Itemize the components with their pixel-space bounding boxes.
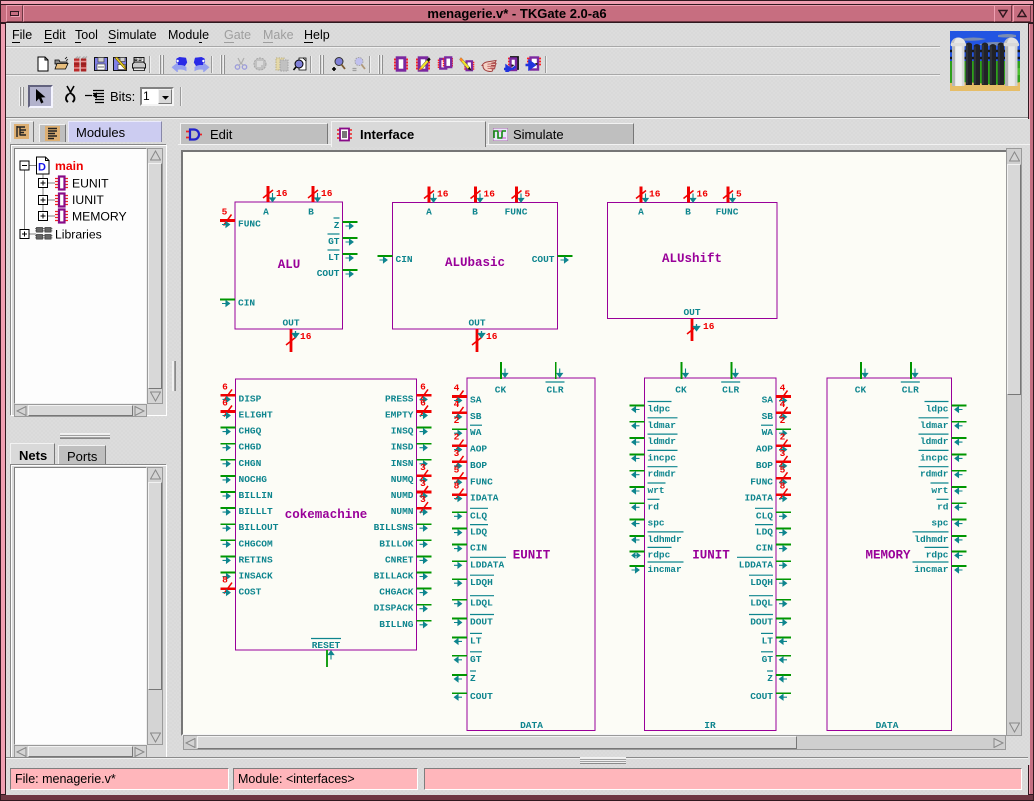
svg-text:3: 3 [454, 448, 460, 459]
svg-text:LDQH: LDQH [470, 577, 493, 588]
svg-text:DISP: DISP [239, 393, 262, 404]
svg-text:DOUT: DOUT [750, 617, 773, 628]
port EMPTY wire [417, 410, 432, 413]
svg-text:ldpc: ldpc [926, 404, 949, 415]
port BILLOUT wire [221, 523, 236, 525]
svg-text:16: 16 [484, 189, 496, 200]
svg-text:LDQH: LDQH [750, 577, 773, 588]
port BILLIN wire [221, 491, 236, 493]
svg-text:LDQ: LDQ [756, 527, 773, 538]
svg-text:rd: rd [648, 501, 660, 512]
svg-text:IUNIT: IUNIT [72, 193, 104, 207]
svg-text:DOUT: DOUT [470, 617, 493, 628]
svg-text:16: 16 [321, 188, 333, 199]
svg-text:FUNC: FUNC [750, 476, 773, 487]
port B16 wire [687, 187, 690, 203]
port GT wire [452, 655, 467, 657]
module EUNIT box [467, 378, 595, 731]
port SB wire [776, 412, 791, 415]
svg-text:Z: Z [334, 220, 340, 231]
svg-text:NOCHG: NOCHG [239, 474, 268, 485]
svg-text:BOP: BOP [470, 460, 487, 471]
svg-text:FUNC: FUNC [238, 219, 261, 230]
port CLR wire [910, 362, 912, 379]
svg-text:5: 5 [454, 464, 460, 475]
port INSD wire [417, 443, 432, 445]
svg-text:WA: WA [762, 427, 774, 438]
port CHGQ wire [221, 427, 236, 429]
svg-text:CNRET: CNRET [385, 554, 414, 565]
port incmar wire [630, 565, 645, 567]
svg-text:BILLNG: BILLNG [379, 619, 414, 630]
port incmar wire [952, 565, 967, 567]
svg-text:DATA: DATA [520, 720, 543, 731]
svg-text:LT: LT [328, 252, 340, 263]
module IUNIT box [645, 378, 777, 731]
port CNRET wire [417, 555, 432, 557]
port CLQ wire [776, 511, 791, 513]
svg-text:LDQL: LDQL [470, 598, 493, 609]
port B16 wire [312, 186, 315, 202]
svg-text:NUMQ: NUMQ [391, 474, 414, 485]
port FUNC5 wire [727, 187, 730, 203]
svg-text:RETINS: RETINS [239, 554, 274, 565]
port A16 wire [640, 187, 643, 203]
port B16 wire [474, 187, 477, 203]
svg-text:COUT: COUT [532, 254, 555, 265]
port LT wire [776, 636, 791, 638]
svg-text:6: 6 [222, 381, 228, 392]
port NUMN wire [417, 507, 432, 510]
svg-text:incmar: incmar [648, 564, 683, 575]
port LT wire [343, 253, 358, 255]
port CHGACK wire [417, 588, 432, 590]
svg-text:incpc: incpc [648, 452, 677, 463]
svg-text:CK: CK [495, 385, 507, 396]
port COUT wire [558, 255, 573, 257]
svg-text:A: A [638, 207, 644, 218]
port COUT wire [452, 692, 467, 694]
port LDQL wire [452, 599, 467, 601]
svg-text:BILLOUT: BILLOUT [239, 522, 279, 533]
port rdmdr wire [630, 470, 645, 472]
port BILLACK wire [417, 572, 432, 574]
svg-text:CIN: CIN [470, 543, 487, 554]
port CK wire [500, 362, 502, 379]
module MEMORY box [827, 378, 952, 731]
port CIN wire [452, 544, 467, 546]
port COUT wire [343, 269, 358, 271]
svg-text:spc: spc [648, 518, 665, 529]
port LDQ wire [452, 528, 467, 530]
svg-text:Z: Z [470, 673, 476, 684]
svg-text:EUNIT: EUNIT [513, 549, 551, 563]
svg-text:INSACK: INSACK [239, 571, 274, 582]
svg-text:Z: Z [767, 673, 773, 684]
port INSACK wire [221, 572, 236, 574]
svg-text:rd: rd [937, 501, 949, 512]
svg-text:IUNIT: IUNIT [692, 549, 730, 563]
svg-text:LT: LT [470, 635, 482, 646]
svg-text:SB: SB [470, 411, 482, 422]
svg-text:incpc: incpc [920, 452, 949, 463]
svg-text:COUT: COUT [750, 691, 773, 702]
port PRESS wire [417, 394, 432, 397]
svg-text:LDQ: LDQ [470, 527, 487, 538]
port GT wire [343, 237, 358, 239]
port AOP wire [452, 444, 467, 447]
svg-text:D: D [38, 162, 46, 174]
svg-text:ldmdr: ldmdr [648, 436, 677, 447]
svg-text:CLR: CLR [902, 385, 919, 396]
svg-text:INSN: INSN [391, 458, 414, 469]
svg-text:ALU: ALU [278, 258, 301, 272]
port A16 wire [267, 186, 270, 202]
port ldhmdr wire [952, 535, 967, 537]
svg-text:5: 5 [736, 189, 742, 200]
svg-text:COUT: COUT [470, 691, 493, 702]
svg-text:ldpc: ldpc [648, 404, 671, 415]
port SA wire [776, 395, 791, 398]
svg-text:LT: LT [762, 635, 774, 646]
svg-text:Libraries: Libraries [55, 228, 102, 242]
svg-text:8: 8 [222, 575, 228, 586]
svg-text:2: 2 [780, 415, 786, 426]
svg-text:rdmdr: rdmdr [920, 469, 949, 480]
svg-text:3: 3 [420, 478, 426, 489]
svg-text:LDDATA: LDDATA [739, 559, 774, 570]
port SB wire [452, 412, 467, 415]
port ldmdr wire [630, 437, 645, 439]
port ldpc wire [630, 405, 645, 407]
port IDATA wire [776, 493, 791, 496]
port LT wire [452, 636, 467, 638]
svg-text:SA: SA [762, 395, 774, 406]
svg-text:FUNC: FUNC [470, 476, 493, 487]
svg-text:2: 2 [454, 415, 460, 426]
port FUNC5 wire [515, 187, 518, 203]
svg-text:3: 3 [420, 494, 426, 505]
port A16 wire [428, 187, 431, 203]
svg-text:16: 16 [697, 189, 709, 200]
svg-text:8: 8 [780, 481, 786, 492]
port LDQ wire [776, 528, 791, 530]
port rd wire [952, 502, 967, 504]
port NUMQ wire [417, 475, 432, 478]
port WA wire [452, 428, 467, 430]
svg-text:WA: WA [470, 427, 482, 438]
svg-text:INSD: INSD [391, 442, 414, 453]
port CIN wire [776, 544, 791, 546]
svg-text:CHGCOM: CHGCOM [239, 538, 274, 549]
port BOP wire [776, 461, 791, 464]
port GT wire [776, 655, 791, 657]
svg-text:ALUbasic: ALUbasic [445, 256, 505, 270]
svg-text:16: 16 [276, 188, 288, 199]
svg-text:CIN: CIN [396, 254, 413, 265]
svg-text:IDATA: IDATA [470, 493, 499, 504]
port FUNC wire [776, 477, 791, 480]
port Z wire [776, 674, 791, 676]
svg-text:incmar: incmar [914, 564, 949, 575]
port LDQL wire [776, 599, 791, 601]
svg-text:4: 4 [454, 399, 460, 410]
port IDATA wire [452, 493, 467, 496]
svg-text:CK: CK [675, 385, 687, 396]
port DISPACK wire [417, 604, 432, 606]
port FUNC wire [220, 219, 235, 222]
svg-text:5: 5 [525, 189, 531, 200]
port spc wire [952, 519, 967, 521]
port LDQH wire [452, 578, 467, 580]
svg-text:AOP: AOP [756, 444, 773, 455]
svg-text:ldmdr: ldmdr [920, 436, 949, 447]
port INSQ wire [417, 427, 432, 429]
svg-text:INSQ: INSQ [391, 426, 414, 437]
svg-text:3: 3 [420, 462, 426, 473]
port LDDATA wire [452, 560, 467, 562]
svg-text:OUT: OUT [468, 318, 485, 329]
svg-text:4: 4 [780, 383, 786, 394]
svg-text:CIN: CIN [756, 543, 773, 554]
svg-text:CHGACK: CHGACK [379, 587, 414, 598]
module cokemachine box [236, 379, 417, 650]
svg-text:NUMD: NUMD [391, 490, 414, 501]
svg-text:RESET: RESET [312, 640, 341, 651]
svg-text:OUT: OUT [282, 318, 299, 329]
svg-text:16: 16 [300, 331, 312, 342]
svg-text:BILLOK: BILLOK [379, 538, 414, 549]
svg-text:MEMORY: MEMORY [72, 210, 127, 224]
svg-text:BOP: BOP [756, 460, 773, 471]
port INSN wire [417, 459, 432, 461]
port AOP wire [776, 444, 791, 447]
svg-text:FUNC: FUNC [505, 207, 528, 218]
port rdmdr wire [952, 470, 967, 472]
port DISP wire [221, 394, 236, 397]
port ldpc wire [952, 405, 967, 407]
svg-text:COST: COST [239, 587, 262, 598]
svg-text:ldmar: ldmar [920, 420, 949, 431]
svg-text:PRESS: PRESS [385, 393, 414, 404]
port CHGD wire [221, 443, 236, 445]
svg-text:B: B [308, 207, 314, 218]
svg-text:4: 4 [780, 399, 786, 410]
port COST wire [221, 587, 236, 590]
svg-text:BILLLT: BILLLT [239, 506, 274, 517]
port ldmar wire [952, 421, 967, 423]
svg-text:8: 8 [454, 481, 460, 492]
port LDQH wire [776, 578, 791, 580]
svg-text:DISPACK: DISPACK [374, 603, 414, 614]
svg-text:CIN: CIN [238, 298, 255, 309]
svg-text:EMPTY: EMPTY [385, 410, 414, 421]
svg-text:EUNIT: EUNIT [72, 177, 109, 191]
svg-text:ldhmdr: ldhmdr [914, 534, 949, 545]
svg-text:BILLSNS: BILLSNS [374, 522, 414, 533]
svg-text:SA: SA [470, 395, 482, 406]
svg-text:main: main [55, 159, 83, 173]
port LDDATA wire [776, 560, 791, 562]
port CIN wire [378, 255, 393, 257]
port BILLNG wire [417, 620, 432, 622]
svg-text:spc: spc [931, 518, 948, 529]
port OUT wire [691, 319, 694, 342]
port ELIGHT wire [221, 410, 236, 413]
svg-text:16: 16 [649, 189, 661, 200]
svg-text:rdmdr: rdmdr [648, 469, 677, 480]
port wrt wire [630, 486, 645, 488]
svg-text:MEMORY: MEMORY [865, 549, 911, 563]
svg-text:IDATA: IDATA [744, 493, 773, 504]
svg-text:2: 2 [780, 432, 786, 443]
svg-text:AOP: AOP [470, 444, 487, 455]
svg-text:A: A [263, 207, 269, 218]
port CLR wire [730, 362, 732, 379]
svg-text:cokemachine: cokemachine [285, 508, 368, 522]
svg-text:FUNC: FUNC [716, 207, 739, 218]
port COUT wire [776, 692, 791, 694]
svg-text:LDDATA: LDDATA [470, 559, 505, 570]
svg-text:IR: IR [704, 720, 716, 731]
svg-text:CHGN: CHGN [239, 458, 262, 469]
svg-text:ALUshift: ALUshift [662, 252, 722, 266]
port DOUT wire [452, 618, 467, 620]
svg-text:rdpc: rdpc [926, 549, 949, 560]
module ALU box [235, 202, 343, 329]
svg-text:ldmar: ldmar [648, 420, 677, 431]
port wrt wire [952, 486, 967, 488]
svg-text:ELIGHT: ELIGHT [239, 410, 274, 421]
port CIN wire [220, 299, 235, 301]
port ldmdr wire [952, 437, 967, 439]
svg-text:CK: CK [855, 385, 867, 396]
port BILLLT wire [221, 507, 236, 509]
svg-text:LDQL: LDQL [750, 598, 773, 609]
svg-text:COUT: COUT [317, 268, 340, 279]
svg-text:6: 6 [222, 398, 228, 409]
module ALUbasic box [393, 203, 558, 330]
port ldhmdr wire [630, 535, 645, 537]
svg-text:ldhmdr: ldhmdr [648, 534, 683, 545]
svg-text:16: 16 [437, 189, 449, 200]
port FUNC wire [452, 477, 467, 480]
svg-text:DATA: DATA [876, 720, 899, 731]
port NOCHG wire [221, 475, 236, 477]
port RETINS wire [221, 555, 236, 557]
port Z wire [343, 221, 358, 223]
port rdpc wire [952, 550, 967, 552]
svg-text:CLQ: CLQ [756, 510, 773, 521]
svg-text:CHGD: CHGD [239, 442, 262, 453]
module ALUshift box [608, 203, 778, 319]
port spc wire [630, 519, 645, 521]
port WA wire [776, 428, 791, 430]
port incpc wire [952, 453, 967, 455]
svg-text:NUMN: NUMN [391, 506, 414, 517]
port OUT wire [290, 329, 293, 352]
svg-text:16: 16 [486, 331, 498, 342]
port rd wire [630, 502, 645, 504]
svg-text:GT: GT [470, 654, 482, 665]
port rdpc wire [630, 550, 645, 552]
svg-text:GT: GT [328, 236, 340, 247]
svg-text:wrt: wrt [931, 485, 948, 496]
svg-text:CLR: CLR [722, 385, 739, 396]
svg-text:SB: SB [762, 411, 774, 422]
svg-text:4: 4 [454, 383, 460, 394]
port RESET wire [326, 650, 328, 667]
svg-text:5: 5 [222, 207, 228, 218]
port ldmar wire [630, 421, 645, 423]
svg-text:16: 16 [703, 321, 715, 332]
svg-text:6: 6 [420, 398, 426, 409]
port BOP wire [452, 461, 467, 464]
port Z wire [452, 674, 467, 676]
port SA wire [452, 395, 467, 398]
svg-text:B: B [685, 207, 691, 218]
port CLQ wire [452, 511, 467, 513]
svg-text:GT: GT [762, 654, 774, 665]
svg-text:B: B [472, 207, 478, 218]
svg-text:BILLIN: BILLIN [239, 490, 274, 501]
svg-text:BILLACK: BILLACK [374, 571, 414, 582]
port NUMD wire [417, 491, 432, 494]
svg-text:5: 5 [780, 464, 786, 475]
port CHGN wire [221, 459, 236, 461]
svg-text:wrt: wrt [648, 485, 665, 496]
port BILLSNS wire [417, 523, 432, 525]
svg-text:CLQ: CLQ [470, 510, 487, 521]
port incpc wire [630, 453, 645, 455]
port OUT wire [476, 329, 479, 352]
svg-text:CLR: CLR [546, 385, 563, 396]
svg-text:CHGQ: CHGQ [239, 426, 262, 437]
port DOUT wire [776, 618, 791, 620]
port CK wire [681, 362, 683, 379]
svg-text:OUT: OUT [683, 307, 700, 318]
port BILLOK wire [417, 539, 432, 541]
svg-text:2: 2 [454, 432, 460, 443]
svg-text:6: 6 [420, 381, 426, 392]
port CK wire [860, 362, 862, 379]
port CLR wire [555, 362, 557, 379]
svg-text:3: 3 [780, 448, 786, 459]
svg-text:rdpc: rdpc [648, 549, 671, 560]
svg-text:A: A [426, 207, 432, 218]
port CHGCOM wire [221, 539, 236, 541]
